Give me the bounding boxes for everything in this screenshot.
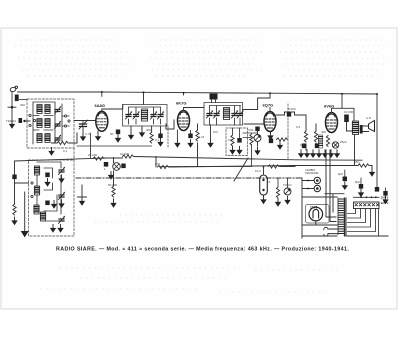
trimmer CT4 xyxy=(59,167,66,175)
trimmer T2a xyxy=(207,110,214,118)
selector feed line xyxy=(354,196,380,198)
wire C7 xyxy=(276,112,306,131)
wire common down xyxy=(24,192,26,231)
coil T2 xyxy=(224,108,230,120)
ground CT6b xyxy=(57,225,63,233)
wire C10 down xyxy=(347,122,353,131)
wire R14 xyxy=(370,166,372,169)
wire OT bottom down xyxy=(354,135,356,166)
wire OT to speaker xyxy=(363,126,369,132)
wires box B internal xyxy=(37,162,61,221)
bypass lamp symbol xyxy=(332,142,338,148)
svg-text:16: 16 xyxy=(267,180,271,184)
svg-text:10.000: 10.000 xyxy=(120,152,130,156)
rectifier tube V5 xyxy=(309,207,323,221)
wire AVC return xyxy=(77,133,152,158)
resistor R6 vertical xyxy=(314,131,317,142)
tube V4 6V6G xyxy=(326,113,338,133)
svg-text:5.000: 5.000 xyxy=(288,107,296,111)
resistor R12 vertical 50k xyxy=(112,186,115,197)
coil L6 xyxy=(45,134,50,143)
ground C11 xyxy=(51,201,57,209)
wire R13 right xyxy=(280,166,295,168)
wire antenna coil to box A xyxy=(20,99,28,101)
voltage selector plugs xyxy=(314,177,320,191)
wire V1 cathode lead xyxy=(97,131,99,133)
svg-text:300: 300 xyxy=(146,128,151,132)
wire V5 bottom xyxy=(315,221,317,225)
ground P2 xyxy=(284,197,290,205)
ground C3 xyxy=(157,139,163,147)
svg-text:6K7G: 6K7G xyxy=(176,101,186,106)
wire choke to T2 xyxy=(212,100,216,103)
trimmer CT6 xyxy=(59,216,66,224)
power box left edge xyxy=(301,178,303,238)
tube V1 6A8G xyxy=(96,111,108,131)
ground P1 xyxy=(254,147,260,155)
output transformer OT xyxy=(353,121,359,135)
ground IFT1 lead xyxy=(130,126,132,131)
switch contacts box B xyxy=(31,182,36,211)
resistor R9 20k xyxy=(93,157,104,160)
wire AVC rail xyxy=(160,166,251,168)
tube V3 6Q7G xyxy=(264,112,276,132)
ground V1 cathode xyxy=(95,133,101,141)
coil L3 xyxy=(37,134,42,143)
coil L7 xyxy=(35,166,40,175)
svg-text:RADIO SIARE. — Mod. « 411 » se: RADIO SIARE. — Mod. « 411 » seconda seri… xyxy=(56,247,349,253)
svg-text:M.F.: M.F. xyxy=(213,130,219,134)
svg-text:TONO: TONO xyxy=(283,183,292,187)
diagonal wire to power xyxy=(234,158,248,181)
resistor R16 AVC 1M xyxy=(250,134,253,145)
speaker cone xyxy=(369,121,375,132)
wire R16 xyxy=(251,145,253,167)
resistor R17 cathode xyxy=(277,138,288,141)
wire R12 xyxy=(113,171,115,200)
node terminal left xyxy=(23,120,25,122)
trimmer T1a xyxy=(126,111,133,119)
wire R2 xyxy=(197,124,199,166)
cap C7 coupling xyxy=(287,112,291,117)
wire T1 to V2 grid xyxy=(166,120,174,129)
resistor R5 vertical xyxy=(304,131,307,142)
wires box A internal xyxy=(33,102,69,144)
cap C2 xyxy=(116,130,120,135)
wire PT top xyxy=(325,194,344,212)
dashed link between boxes xyxy=(73,148,75,160)
band switch box A xyxy=(27,99,74,148)
trimmer T1b xyxy=(133,111,140,119)
svg-text:6Q7G: 6Q7G xyxy=(263,103,274,108)
wire V3 top xyxy=(269,94,271,112)
ground lamp xyxy=(108,172,114,180)
cap C13 left xyxy=(12,175,16,180)
svg-text:W.L.: W.L. xyxy=(355,160,361,164)
trimmer CT2 xyxy=(55,121,62,129)
svg-text:300: 300 xyxy=(20,103,25,107)
cap C11b xyxy=(45,173,49,178)
wires caps xyxy=(345,170,386,191)
IF transformer T1 box xyxy=(123,105,168,127)
svg-text:0,1: 0,1 xyxy=(155,138,160,142)
wire V2 plate top xyxy=(184,93,205,111)
trimmer T1d xyxy=(158,111,165,119)
wire V2 cathode xyxy=(177,130,190,139)
tiny value labels xyxy=(6,103,371,187)
svg-text:C.V.: C.V. xyxy=(85,132,91,136)
resistor R13 field xyxy=(268,165,279,168)
coil T1 primary xyxy=(142,109,148,121)
cap C19 xyxy=(375,187,379,192)
IF transformer T2 box xyxy=(204,103,243,126)
svg-text:125 V: 125 V xyxy=(381,201,389,205)
resistor R2 vertical xyxy=(196,130,199,141)
coil L9 xyxy=(34,205,39,214)
wires selector xyxy=(302,181,314,189)
ground R4 xyxy=(229,147,235,155)
wire grid lead box A to tube V1 xyxy=(24,120,96,123)
wire antenna coil to top rail xyxy=(18,91,102,93)
ground R1 xyxy=(48,148,54,156)
cap C20 xyxy=(383,191,387,196)
resistor R15 vertical xyxy=(276,187,279,198)
svg-text:1 M: 1 M xyxy=(199,135,205,139)
wire box B to left xyxy=(15,161,29,204)
wire C1 leads xyxy=(82,121,84,134)
ground R17 xyxy=(277,142,283,150)
svg-text:0,1: 0,1 xyxy=(63,149,68,153)
svg-text:25µF: 25µF xyxy=(340,140,347,144)
ground CT4 xyxy=(58,175,64,183)
resistor R1 oscillator grid xyxy=(57,141,68,144)
ground C20 xyxy=(382,196,388,204)
resistor R3 vertical xyxy=(151,126,153,132)
resistor R10 10k xyxy=(123,155,134,158)
antenna terminal bar xyxy=(8,106,16,108)
resistor R8 left vertical xyxy=(13,204,16,215)
svg-text:6A8G: 6A8G xyxy=(95,103,105,108)
svg-text:0,1: 0,1 xyxy=(300,143,305,147)
coil L5 xyxy=(45,119,50,128)
ground C11b xyxy=(44,179,50,187)
resistor R4 vertical xyxy=(231,135,234,146)
power transformer PT core xyxy=(344,198,346,236)
ground C2 xyxy=(115,135,121,143)
ground R8 xyxy=(11,217,17,225)
wire T2 bottom to ground xyxy=(210,125,212,139)
cap C17 8uF xyxy=(343,177,347,182)
svg-text:10,4: 10,4 xyxy=(255,169,261,173)
resistor R14 WL xyxy=(358,164,369,167)
wire osc grid xyxy=(52,133,78,143)
svg-text:0,5: 0,5 xyxy=(228,138,233,142)
chassis dash-dot line xyxy=(76,177,302,179)
trimmer T1c xyxy=(151,111,158,119)
choke on top rail xyxy=(210,94,218,100)
field coil choke xyxy=(319,135,323,148)
cap C10 at V4 plate xyxy=(344,115,349,123)
electrolytic C16 xyxy=(260,175,268,195)
svg-text:TENSIONE: TENSIONE xyxy=(305,171,319,175)
cap C11 xyxy=(45,201,49,206)
ground R14 xyxy=(369,169,375,177)
ground C1 xyxy=(80,133,86,141)
power box rails xyxy=(302,197,337,236)
coil L1 xyxy=(37,105,42,114)
antenna coil xyxy=(15,95,19,102)
cap C9 xyxy=(315,144,319,149)
trimmer T2c xyxy=(232,110,239,118)
cap C18 8uF xyxy=(359,184,363,189)
svg-text:800: 800 xyxy=(155,162,160,166)
dashed AVC vertical xyxy=(167,126,169,147)
svg-text:0,5: 0,5 xyxy=(296,125,301,129)
detector dashed box xyxy=(226,128,248,156)
wire heater rail xyxy=(135,157,363,167)
ground V2 xyxy=(174,140,180,148)
ground common big xyxy=(21,231,29,237)
wire C16 xyxy=(263,167,265,196)
svg-text:TERRA: TERRA xyxy=(6,119,16,123)
tube V2 6K7G xyxy=(178,111,190,131)
svg-text:10.000: 10.000 xyxy=(344,110,354,114)
primary stubs xyxy=(326,217,336,222)
svg-text:VOL.: VOL. xyxy=(248,128,255,132)
wires T1 internal xyxy=(129,107,161,124)
cap C3 xyxy=(160,126,162,133)
ghost bleed-through texture xyxy=(15,40,388,292)
ground V3 under tube xyxy=(270,132,272,133)
cap C15 at lamp xyxy=(121,164,125,169)
volume potentiometer P1 xyxy=(254,131,261,146)
trimmer T2b xyxy=(214,110,221,118)
cap C6 cathode xyxy=(269,139,273,144)
tuning capacitor C1 xyxy=(79,120,88,129)
cap P1 top xyxy=(255,127,259,132)
ground T2 xyxy=(207,140,213,148)
earth terminal xyxy=(19,118,23,123)
ground antenna xyxy=(9,121,15,129)
antenna xyxy=(10,86,18,92)
trimmer CT5 xyxy=(59,192,66,200)
svg-text:100 V: 100 V xyxy=(381,196,389,200)
coil L2 xyxy=(37,119,42,128)
ground C17 xyxy=(342,182,348,190)
resistor R7 cathode 250 xyxy=(326,136,329,147)
cap C8 xyxy=(302,144,306,149)
voice coil bar xyxy=(360,125,363,134)
trimmer T2d xyxy=(237,110,244,118)
wire antenna down-lead xyxy=(11,92,13,125)
svg-text:1176: 1176 xyxy=(310,206,317,210)
cap C4 xyxy=(188,134,192,139)
ground R15 xyxy=(275,199,281,207)
ground C4 xyxy=(187,140,193,148)
wires T2 internal xyxy=(210,106,241,126)
rectifier box xyxy=(306,205,330,224)
svg-text:6V6G: 6V6G xyxy=(324,104,334,109)
svg-text:8µF: 8µF xyxy=(355,180,360,184)
ground C18 xyxy=(358,189,364,197)
svg-text:50.000: 50.000 xyxy=(108,183,118,187)
wire left rail B+ xyxy=(15,158,108,161)
PT bottom rail xyxy=(346,235,388,237)
speaker leads down xyxy=(326,150,330,222)
dashed shield line xyxy=(287,104,289,160)
wire right edge vertical xyxy=(376,94,378,187)
switch contacts box A xyxy=(29,114,70,127)
coil L8 xyxy=(35,186,40,195)
wire B+ feed IFT1 xyxy=(143,93,145,105)
ground CT5 xyxy=(58,200,64,208)
dial lamp xyxy=(113,163,121,171)
svg-text:400: 400 xyxy=(321,130,326,134)
ground stub mid xyxy=(78,185,87,197)
ground row amp xyxy=(298,150,304,158)
selector tap staircase xyxy=(348,209,379,237)
ground CT6a xyxy=(50,225,56,233)
svg-text:A.P.: A.P. xyxy=(366,116,371,120)
trimmer CT1 xyxy=(55,106,62,114)
wire tone xyxy=(278,178,288,188)
ground C5 xyxy=(236,147,242,155)
wire R5 R6 xyxy=(306,124,316,150)
PT winding edge xyxy=(337,198,339,235)
wire V4 plate xyxy=(332,94,355,121)
coil L4 xyxy=(45,105,50,114)
heater stub loops xyxy=(328,229,338,234)
mains selector strip xyxy=(354,202,380,209)
wire V1 plate to IFT1 xyxy=(102,92,123,111)
cap C14 xyxy=(104,162,108,167)
ground C16 xyxy=(260,196,266,204)
svg-text:8µF: 8µF xyxy=(338,172,343,176)
wire 800 to right xyxy=(170,166,359,168)
svg-text:20.000: 20.000 xyxy=(88,153,98,157)
ground R12 xyxy=(110,200,116,208)
junction dots xyxy=(101,91,378,168)
cap C5 xyxy=(237,138,241,143)
coil L10 xyxy=(41,212,46,221)
resistor R11 800ohm xyxy=(158,165,169,168)
oscillator box B xyxy=(29,160,75,236)
ground T1 bottom2 xyxy=(141,126,143,129)
tone potentiometer P2 xyxy=(284,188,291,195)
wires detector xyxy=(233,128,258,138)
svg-text:50: 50 xyxy=(110,132,114,136)
wire R9 to lamp xyxy=(105,158,123,163)
trimmer CT3 xyxy=(55,135,62,143)
PT primary winding hatch xyxy=(339,199,344,234)
wire top rail xyxy=(102,92,377,94)
wire IFT2 to V3 grid cap xyxy=(243,94,271,124)
